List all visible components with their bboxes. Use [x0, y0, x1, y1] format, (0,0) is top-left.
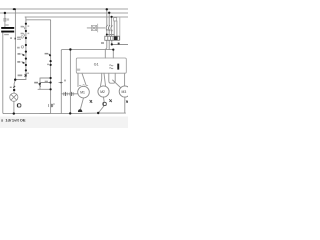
wire v2 lower: [108, 30, 110, 36]
contact 1C2 label: [18, 75, 23, 77]
connector pair on M1 feeder: [63, 92, 74, 95]
wire rail L2: [0, 12, 128, 14]
junction dot rail2 power: [108, 12, 110, 14]
wire coil return: [119, 17, 121, 40]
wire v3 lower: [111, 30, 113, 36]
transformer TC secondary bar: [1, 31, 14, 33]
wire power drop v2: [108, 13, 110, 25]
G1 inner small text: [77, 69, 80, 71]
wire M1 left feeder: [61, 93, 78, 95]
pushbutton 1b2 contact: [22, 62, 24, 64]
cross link dot: [106, 34, 108, 36]
wire M2 feed b: [104, 73, 106, 86]
ladder cluster2 text: [17, 47, 20, 49]
control tap dot: [111, 43, 113, 45]
G1 feed dot: [112, 49, 114, 51]
overload relay 1e body: [105, 36, 120, 40]
wire rung lamp row: [15, 79, 26, 81]
contact 1C5 label: [34, 82, 38, 84]
wire fuse pair left: [113, 21, 115, 36]
left chain small side labels: [28, 25, 30, 26]
ladder fuse label left: [10, 37, 12, 39]
coil feed junction dot: [69, 48, 71, 50]
wire M3 bottom: [124, 97, 126, 113]
transformer TC label above: [5, 24, 9, 25]
svg-text:OE: OE: [20, 118, 26, 123]
wire h2 to right chain: [41, 82, 51, 84]
bottom rail junction dot lamp: [13, 112, 15, 114]
wire neutral drop x70.4: [69, 50, 71, 114]
transformer TC primary bar: [1, 27, 14, 29]
converter G1 box: [76, 58, 126, 73]
wire transformer secondary down: [2, 32, 5, 113]
G1 wave symbol: [109, 65, 113, 69]
contact 1C2 NC: [24, 74, 26, 77]
fuse F1 body: [4, 18, 6, 21]
wire power drop v3: [111, 17, 113, 26]
wire v3 below relay to dot: [111, 40, 113, 44]
bottom rail dot M1: [69, 112, 71, 114]
motor M2: [98, 86, 109, 97]
wire M1 feed b slanted: [82, 73, 86, 85]
ladder cluster2 circle: [21, 46, 23, 48]
wire lamp to bottom rail: [13, 101, 15, 113]
svg-text:M3: M3: [122, 90, 127, 94]
right chain dot h3: [50, 88, 52, 90]
wire rail L3: [25, 16, 128, 18]
overload relay dark element: [114, 36, 118, 40]
wire M1 bottom: [81, 98, 84, 109]
right chain dot a: [50, 60, 52, 62]
transformer TC label below: [4, 34, 9, 35]
wire v1 below relay to G1: [105, 40, 107, 58]
right chain connector symbol: [48, 104, 53, 107]
ladder cluster1 text: [17, 37, 20, 38]
overload relay 1e label: [101, 42, 104, 44]
lamp branch dot: [14, 79, 16, 81]
fuse F1 label: [7, 18, 9, 20]
motor M1: [78, 86, 90, 98]
small label left of neutral: [64, 80, 66, 82]
ladder tap mark: [15, 38, 16, 40]
signal lamp 1h: [10, 93, 18, 101]
pushbutton 1b2 label: [17, 61, 20, 63]
wire cross link y34.5: [107, 34, 114, 36]
wire return vertical: [60, 50, 62, 113]
M2 3-phase mark: [109, 99, 112, 102]
svg-text:M1: M1: [80, 91, 85, 95]
right chain small label: [47, 64, 49, 65]
control tap dark tick: [118, 43, 120, 45]
wire lamp branch: [14, 80, 15, 94]
wire bottom rail: [4, 112, 126, 115]
right chain dot h2: [50, 81, 52, 83]
motor M1 top squiggles: [79, 85, 88, 86]
wire coil feed horizontal y49.6: [61, 49, 113, 52]
M1 3-phase mark: [90, 100, 93, 103]
lamp label: [10, 87, 12, 88]
ladder cluster1 text row2: [17, 39, 21, 40]
lamp series contact mark: [13, 86, 15, 88]
pushbutton 1b1 contact: [22, 54, 24, 56]
M3 3-phase mark: [126, 101, 128, 103]
switch pole terminals: [106, 29, 112, 31]
caption text: [1, 118, 26, 123]
contact 1C1 label: [45, 81, 48, 82]
wire transformer primary drop from L2: [4, 13, 6, 27]
paper background: [0, 0, 128, 128]
contact 1C5: [39, 83, 41, 86]
wire operator link: [87, 27, 105, 29]
wire M2 bottom: [98, 97, 104, 113]
wire left chain from L3 corner: [24, 17, 27, 80]
wire power drop v1: [106, 9, 108, 25]
G1 dark bar: [117, 64, 119, 70]
wire G1 second feed: [112, 50, 114, 58]
svg-text:G1: G1: [94, 62, 99, 66]
svg-text:M2: M2: [100, 90, 105, 94]
wire contact 1C5 vertical segment: [39, 78, 41, 89]
connector under M2: [103, 102, 106, 105]
motor M3: [119, 86, 130, 97]
wire M1 feed a: [77, 73, 79, 86]
wire M3 right feed: [124, 73, 126, 86]
wire h1 to right chain: [41, 77, 51, 79]
right chain dot b: [50, 64, 52, 66]
bottom caption band: [0, 117, 128, 129]
return wire tick: [59, 82, 63, 84]
wire ladder drop from L1: [14, 9, 16, 80]
wire right chain: [40, 20, 51, 114]
control fuse box: [114, 18, 117, 21]
contact 1C3 label: [45, 53, 49, 55]
switch Q1 pole contacts: [106, 25, 112, 30]
connector symbol near lamp: [17, 104, 21, 107]
wire chain top link: [26, 19, 51, 22]
left chain contact marks: [22, 26, 25, 63]
junction dot rail2 transformer: [4, 12, 6, 14]
ground dome under M1: [78, 109, 82, 112]
pushbutton 1b1 label: [18, 53, 21, 55]
wire h3 to right chain: [38, 88, 51, 90]
wire M3 left diagonal: [113, 80, 121, 88]
lamp terminal square: [13, 89, 15, 91]
wire control tap right: [112, 44, 128, 46]
right chain dot h1: [50, 77, 52, 79]
left chain row labels: [21, 26, 24, 28]
junction dot rail1 power: [106, 8, 108, 10]
wire v1 lower: [106, 30, 108, 37]
ladder cluster1 circle: [21, 36, 23, 38]
svg-text:1vit: 1vit: [12, 118, 20, 123]
junction dot rail3 power: [111, 16, 113, 18]
wire rail L1: [0, 8, 128, 10]
wire u-jog under G1: [109, 73, 115, 83]
contact 1C3: [49, 54, 51, 56]
wire v2 below relay: [108, 40, 110, 49]
junction dot rail1 ladder: [13, 8, 16, 10]
wire fuse pair right: [116, 21, 118, 36]
left chain terminal dots: [25, 23, 27, 72]
bottom rail dot M2: [97, 112, 99, 114]
operator symbol: [91, 24, 97, 33]
wire M2 feed a: [101, 73, 102, 86]
